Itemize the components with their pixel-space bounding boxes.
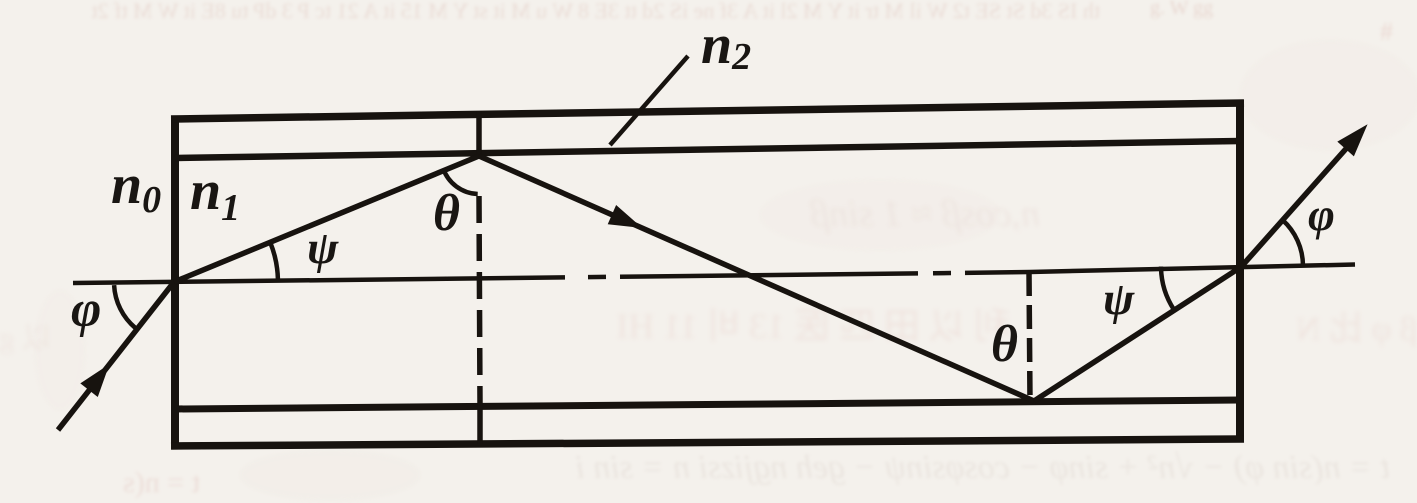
bleed-through bottom-left marks — [123, 466, 200, 499]
internal ray down from top reflection — [479, 156, 1034, 401]
normal line at bottom reflection point (dashed) — [1029, 272, 1030, 401]
fiber axis dash-dot center line — [73, 265, 1355, 284]
bleed-through right marks — [0, 306, 1417, 355]
svg-text:th IS 3d St SE t2 W il M tr it: th IS 3d St SE t2 W il M tr it Y M 2l it… — [92, 0, 1100, 23]
svg-text:φ: φ — [71, 281, 101, 338]
refracted ray inside core (up) — [174, 156, 479, 282]
svg-text:ψ: ψ — [1103, 273, 1135, 325]
top cladding inner boundary line — [175, 141, 1240, 158]
normal line at top reflection point (solid in bottom cladding) — [477, 403, 483, 444]
svg-text:β φ 比 N: β φ 比 N — [1296, 311, 1417, 348]
fiber outer rectangle: bottom edge — [171, 439, 1244, 446]
internal ray up from bottom reflection — [1034, 267, 1241, 401]
svg-text:θ: θ — [991, 316, 1018, 373]
svg-text:ψ: ψ — [307, 222, 339, 274]
bottom cladding inner boundary line — [175, 400, 1240, 409]
bleed-through mid formula — [810, 193, 1040, 235]
incoming ray arrowhead — [82, 366, 108, 396]
angle arc theta at top reflection — [443, 168, 478, 194]
internal ray arrowhead — [609, 206, 640, 227]
fiber outer rectangle: left edge — [171, 116, 179, 449]
svg-text:t = n(s: t = n(s — [123, 466, 200, 499]
svg-text:θ: θ — [433, 185, 460, 242]
exit ray arrowhead — [1339, 126, 1366, 155]
normal line at top reflection point (solid in cladding) — [476, 111, 482, 158]
angle arc psi at entry — [270, 243, 278, 279]
bleed-through top strip — [92, 0, 1393, 46]
angle arc phi at entry — [114, 285, 135, 328]
svg-text:#: # — [1380, 17, 1393, 46]
fiber outer rectangle: top edge — [171, 103, 1244, 119]
svg-text:t = n(sin φ) − √n² + sinφ − co: t = n(sin φ) − √n² + sinφ − cosφsinψ − g… — [575, 449, 1390, 486]
svg-text:φ: φ — [1308, 189, 1335, 240]
angle arc psi at exit point — [1161, 267, 1174, 310]
fiber outer rectangle: right edge — [1236, 100, 1244, 442]
pointer line from n2 label to cladding — [610, 56, 688, 145]
normal line at top reflection point (dashed in core) — [479, 196, 480, 403]
angle arc phi above axis at exit — [1282, 220, 1303, 266]
svg-text:g. W gg: g. W gg — [1150, 0, 1213, 19]
exit ray — [1241, 133, 1360, 267]
incoming ray — [58, 282, 174, 430]
svg-text:利 以 田 匹 医 13 비 11 HI: 利 以 田 匹 医 13 비 11 HI — [616, 306, 1010, 346]
bleed-through bottom formula strip — [575, 449, 1390, 486]
